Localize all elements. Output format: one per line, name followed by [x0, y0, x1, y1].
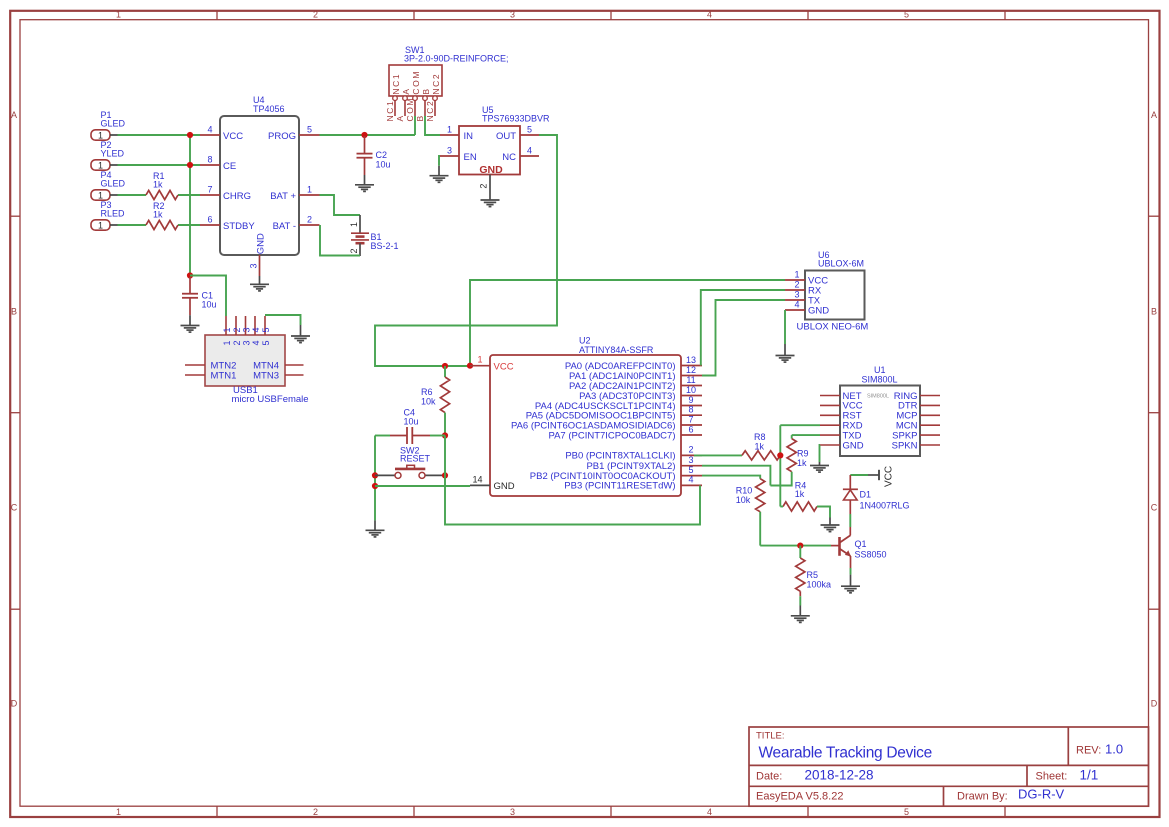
svg-text:Sheet:: Sheet: [1036, 771, 1068, 783]
svg-text:1: 1 [116, 10, 121, 20]
svg-text:1: 1 [98, 190, 103, 200]
svg-text:8: 8 [207, 154, 212, 164]
svg-text:SPKN: SPKN [892, 440, 918, 451]
svg-text:1: 1 [98, 160, 103, 170]
svg-text:TP4056: TP4056 [253, 104, 285, 114]
svg-text:10u: 10u [202, 299, 217, 309]
svg-text:EN: EN [464, 152, 477, 163]
svg-text:D: D [11, 698, 18, 708]
svg-text:4: 4 [207, 124, 212, 134]
svg-text:4: 4 [794, 299, 799, 309]
svg-text:3: 3 [510, 10, 515, 20]
svg-text:12: 12 [686, 365, 696, 375]
svg-text:A: A [11, 110, 17, 120]
svg-text:2018-12-28: 2018-12-28 [805, 768, 874, 783]
svg-text:3: 3 [794, 289, 799, 299]
svg-text:GLED: GLED [101, 119, 126, 129]
svg-text:A: A [1151, 110, 1157, 120]
svg-text:10: 10 [686, 385, 696, 395]
svg-text:C: C [11, 503, 18, 513]
svg-text:DG-R-V: DG-R-V [1018, 787, 1065, 802]
svg-text:6: 6 [207, 214, 212, 224]
svg-text:2: 2 [232, 327, 242, 332]
svg-text:PA7 (PCINT7ICPOC0BADC7): PA7 (PCINT7ICPOC0BADC7) [548, 430, 675, 441]
svg-text:Drawn By:: Drawn By: [957, 790, 1008, 802]
svg-text:3: 3 [447, 145, 452, 155]
svg-text:1: 1 [98, 130, 103, 140]
svg-text:4: 4 [707, 10, 712, 20]
svg-text:4: 4 [251, 327, 261, 332]
svg-text:Date:: Date: [756, 771, 782, 783]
svg-text:RESET: RESET [400, 454, 431, 464]
svg-text:B: B [11, 306, 17, 316]
svg-text:Wearable Tracking Device: Wearable Tracking Device [759, 745, 932, 762]
svg-text:RLED: RLED [101, 209, 126, 219]
svg-text:D1: D1 [860, 490, 872, 500]
svg-text:1: 1 [349, 222, 359, 227]
svg-text:1k: 1k [153, 210, 163, 220]
svg-text:6: 6 [688, 424, 693, 434]
svg-text:11: 11 [686, 375, 695, 385]
svg-text:BAT +: BAT + [270, 191, 296, 202]
svg-text:1.0: 1.0 [1105, 741, 1123, 756]
svg-text:10k: 10k [421, 397, 436, 407]
svg-text:GND: GND [479, 164, 503, 176]
svg-text:TITLE:: TITLE: [756, 730, 785, 741]
svg-text:NC2: NC2 [431, 73, 441, 95]
svg-text:GND: GND [494, 481, 515, 492]
svg-text:COM: COM [411, 70, 421, 95]
svg-text:3: 3 [241, 340, 251, 345]
svg-text:NC1: NC1 [391, 73, 401, 95]
svg-text:REV:: REV: [1076, 744, 1101, 756]
svg-text:3P-2.0-90D-REINFORCE;: 3P-2.0-90D-REINFORCE; [404, 54, 509, 64]
svg-text:1: 1 [222, 327, 232, 332]
svg-text:2: 2 [313, 10, 318, 20]
svg-text:7: 7 [688, 414, 693, 424]
svg-text:10u: 10u [376, 160, 391, 170]
svg-text:A: A [401, 87, 411, 94]
svg-text:SS8050: SS8050 [855, 549, 887, 559]
svg-text:GLED: GLED [101, 179, 126, 189]
svg-text:SIM800L: SIM800L [867, 394, 889, 400]
svg-text:5: 5 [904, 10, 909, 20]
svg-text:EasyEDA V5.8.22: EasyEDA V5.8.22 [756, 790, 843, 802]
svg-text:1: 1 [98, 220, 103, 230]
svg-text:1k: 1k [795, 489, 805, 499]
svg-text:8: 8 [688, 405, 693, 415]
svg-text:10k: 10k [736, 495, 751, 505]
svg-text:VCC: VCC [884, 466, 895, 487]
svg-text:14: 14 [472, 474, 482, 484]
svg-text:2: 2 [313, 807, 318, 817]
svg-text:R5: R5 [807, 570, 819, 580]
svg-text:7: 7 [207, 184, 212, 194]
svg-text:4: 4 [707, 807, 712, 817]
svg-text:2: 2 [688, 445, 693, 455]
svg-text:PB3 (PCINT11RESETdW): PB3 (PCINT11RESETdW) [564, 481, 675, 492]
svg-text:2: 2 [794, 279, 799, 289]
svg-text:1: 1 [116, 807, 121, 817]
svg-text:ATTINY84A-SSFR: ATTINY84A-SSFR [579, 345, 654, 355]
svg-text:1: 1 [794, 269, 799, 279]
svg-text:5: 5 [307, 124, 312, 134]
svg-text:OUT: OUT [496, 131, 516, 142]
svg-text:1: 1 [447, 124, 452, 134]
svg-text:VCC: VCC [223, 131, 243, 142]
svg-text:CE: CE [223, 161, 236, 172]
svg-text:1: 1 [222, 340, 232, 345]
svg-text:B: B [421, 87, 431, 94]
svg-text:MTN1: MTN1 [211, 370, 237, 381]
svg-text:CHRG: CHRG [223, 191, 251, 202]
svg-text:5: 5 [261, 340, 271, 345]
svg-text:1k: 1k [797, 458, 807, 468]
svg-text:13: 13 [686, 355, 696, 365]
svg-text:R9: R9 [797, 449, 809, 459]
svg-text:1k: 1k [153, 180, 163, 190]
svg-text:NC: NC [502, 152, 516, 163]
svg-text:2: 2 [349, 248, 359, 253]
svg-text:UBLOX NEO-6M: UBLOX NEO-6M [797, 322, 869, 333]
svg-text:2: 2 [479, 184, 489, 189]
svg-text:SIM800L: SIM800L [862, 375, 898, 385]
svg-text:GND: GND [843, 440, 864, 451]
svg-text:1: 1 [307, 184, 312, 194]
svg-text:10u: 10u [404, 417, 419, 427]
svg-text:U2: U2 [579, 336, 591, 346]
svg-text:STDBY: STDBY [223, 221, 255, 232]
svg-text:micro USBFemale: micro USBFemale [232, 394, 309, 405]
svg-text:5: 5 [261, 327, 271, 332]
svg-text:A: A [395, 114, 405, 121]
svg-text:1N4007RLG: 1N4007RLG [860, 501, 910, 511]
svg-text:B: B [1151, 306, 1157, 316]
svg-text:4: 4 [527, 145, 532, 155]
svg-text:5: 5 [527, 124, 532, 134]
svg-text:1/1: 1/1 [1080, 768, 1099, 783]
svg-text:3: 3 [510, 807, 515, 817]
svg-text:TPS76933DBVR: TPS76933DBVR [482, 114, 550, 124]
svg-text:Q1: Q1 [855, 539, 867, 549]
svg-text:NC2: NC2 [425, 100, 435, 122]
svg-text:U1: U1 [874, 365, 886, 375]
svg-text:1: 1 [477, 355, 482, 365]
svg-text:C2: C2 [376, 150, 388, 160]
svg-text:4: 4 [688, 475, 693, 485]
svg-text:NC1: NC1 [385, 100, 395, 122]
svg-text:BAT -: BAT - [273, 221, 296, 232]
svg-text:GND: GND [808, 305, 829, 316]
svg-text:3: 3 [241, 327, 251, 332]
svg-text:4: 4 [251, 340, 261, 345]
svg-text:YLED: YLED [101, 149, 125, 159]
svg-text:B: B [415, 114, 425, 121]
svg-text:COM: COM [405, 97, 415, 122]
svg-text:C: C [1151, 503, 1158, 513]
svg-text:2: 2 [307, 214, 312, 224]
svg-text:9: 9 [688, 395, 693, 405]
svg-text:PROG: PROG [268, 131, 296, 142]
svg-text:5: 5 [688, 465, 693, 475]
svg-text:1k: 1k [755, 441, 765, 451]
svg-text:MTN3: MTN3 [253, 370, 279, 381]
svg-text:GND: GND [255, 233, 266, 254]
svg-text:D: D [1151, 698, 1158, 708]
svg-text:VCC: VCC [494, 362, 514, 373]
svg-text:UBLOX-6M: UBLOX-6M [818, 259, 864, 269]
svg-text:BS-2-1: BS-2-1 [371, 241, 399, 251]
svg-text:3: 3 [688, 455, 693, 465]
svg-text:2: 2 [232, 340, 242, 345]
svg-text:3: 3 [249, 263, 259, 268]
svg-text:IN: IN [464, 131, 474, 142]
svg-text:100ka: 100ka [807, 580, 832, 590]
svg-text:5: 5 [904, 807, 909, 817]
